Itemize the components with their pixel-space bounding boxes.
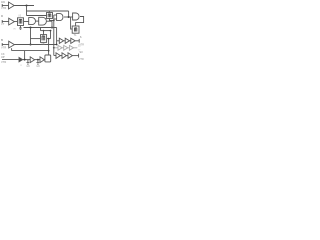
monostable U10 xyxy=(41,35,47,43)
wire vertical from node A xyxy=(26,6,28,16)
wire stub gate U7 lower input xyxy=(54,18,57,20)
wire hook left xyxy=(11,48,13,50)
wire mid bus y27.5 xyxy=(24,27,57,29)
port tick CK xyxy=(1,4,3,7)
wire xyxy=(60,55,62,57)
wire xyxy=(2,5,8,7)
wire stub gate U7 upper input xyxy=(54,14,57,16)
node junction xyxy=(56,44,58,46)
wire stub to U10 input xyxy=(31,38,41,40)
wire left of U9 xyxy=(71,18,73,30)
node junction row B tap xyxy=(53,47,55,49)
wire down from U6 output xyxy=(51,21,53,27)
row B (faint) xyxy=(54,45,78,50)
delay box U3 xyxy=(18,18,24,26)
wire bottom bus xyxy=(23,59,30,61)
box U15 xyxy=(45,55,51,62)
svg-text:S: S xyxy=(80,35,82,39)
wire U11 output bus xyxy=(14,44,56,46)
row C buffer 2 xyxy=(62,53,66,59)
wire U8 output loop xyxy=(76,17,84,27)
node A junction xyxy=(26,5,28,7)
wire U6 output xyxy=(47,20,52,22)
and-gate U7 xyxy=(57,14,63,21)
U9 glyph xyxy=(75,28,77,32)
wire U1 output xyxy=(14,5,34,7)
wire long y50.6 xyxy=(12,50,49,52)
wire xyxy=(35,59,40,61)
node junction xyxy=(24,59,26,61)
U3 glyph xyxy=(19,19,22,23)
port tick D xyxy=(1,20,3,23)
wire UP xyxy=(2,59,19,61)
buffer U2 xyxy=(9,18,15,25)
ground G2 xyxy=(37,60,40,65)
svg-text:CK: CK xyxy=(1,0,5,4)
U5 glyph xyxy=(48,14,51,17)
svg-text:B: B xyxy=(1,38,3,42)
svg-text:GD: GD xyxy=(36,65,40,68)
node junction xyxy=(43,30,45,32)
box U9 xyxy=(72,26,79,33)
node junction xyxy=(51,27,53,29)
U10 glyph xyxy=(42,36,45,40)
wire U4 to U6 xyxy=(36,20,39,22)
wire vertical x24.6 xyxy=(24,51,26,60)
wire xyxy=(2,44,9,46)
svg-text:VTR: VTR xyxy=(79,58,84,61)
port tick row A xyxy=(78,39,80,43)
wire row B out xyxy=(74,47,78,49)
wire feedback top y30.5 xyxy=(41,30,51,32)
wire vertical bus V2 xyxy=(53,15,55,56)
svg-text:GD: GD xyxy=(26,65,30,68)
wire xyxy=(62,47,64,49)
wire U10 output xyxy=(47,38,51,40)
row B buffer 2 xyxy=(64,45,68,50)
buffer U1 xyxy=(9,2,15,9)
node junction xyxy=(30,44,32,46)
wire U2 output xyxy=(14,21,17,23)
wire xyxy=(66,55,68,57)
node junction xyxy=(30,27,32,29)
wire xyxy=(64,40,66,42)
port tick B xyxy=(1,43,3,46)
vertical to row A xyxy=(56,28,58,45)
U5 pin bottom xyxy=(50,19,54,21)
buffer U13 xyxy=(30,57,34,63)
wire row C input corner xyxy=(54,55,56,57)
wire top bus y11 xyxy=(27,10,69,12)
wire corner up to mid bus xyxy=(40,28,42,31)
U10 top pin xyxy=(43,31,45,35)
svg-text:VT: VT xyxy=(1,22,5,26)
wire vertical x30.5 xyxy=(30,28,32,45)
wire xyxy=(2,21,9,23)
pulse box U5 xyxy=(47,13,53,19)
wire U3 output xyxy=(24,21,29,23)
ground G1 xyxy=(27,60,30,65)
port tick row C xyxy=(78,54,80,58)
and-gate U6 xyxy=(39,17,47,25)
svg-text:FB: FB xyxy=(42,43,45,46)
row B buffer 3 xyxy=(69,45,73,50)
wire stub row A input xyxy=(57,40,60,42)
node junction xyxy=(48,50,50,52)
row A buffer 1 xyxy=(59,38,63,43)
row A buffer 3 xyxy=(71,38,75,43)
row A buffer 2 xyxy=(65,38,69,43)
node junction xyxy=(53,20,55,22)
node junction xyxy=(48,38,50,40)
row C buffer 1 xyxy=(56,53,60,59)
wire row C out xyxy=(72,55,78,57)
wire row A out xyxy=(75,40,79,42)
wire into box xyxy=(43,59,46,61)
and-gate U4 xyxy=(29,18,36,25)
node junction xyxy=(68,16,70,18)
row C buffer 3 xyxy=(68,53,72,59)
buffer U14 xyxy=(40,57,44,63)
and-gate U8 xyxy=(73,13,79,20)
ground under U3 xyxy=(19,26,22,30)
U5 pin top xyxy=(48,11,50,13)
wire vertical x48.6 xyxy=(48,39,50,55)
wire stub row B input xyxy=(54,47,58,49)
wire into U5 xyxy=(27,15,47,17)
node junction xyxy=(37,59,39,61)
wire xyxy=(68,47,70,49)
wire U7 output xyxy=(64,16,73,18)
buffer U11 xyxy=(9,41,15,48)
wire xyxy=(70,40,71,42)
svg-text:VTR: VTR xyxy=(1,60,6,64)
wire feedback down xyxy=(50,31,52,39)
svg-text:S3: S3 xyxy=(79,50,83,54)
wire down right xyxy=(68,11,70,17)
arrow buffer U12 xyxy=(19,57,23,61)
row B buffer 1 xyxy=(58,45,62,50)
svg-text:UP: UP xyxy=(1,55,5,59)
